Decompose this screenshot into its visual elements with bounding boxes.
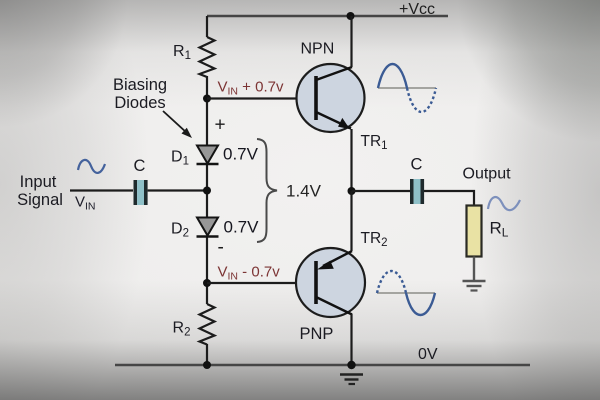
svg-text:D1: D1 bbox=[171, 149, 189, 168]
svg-text:-: - bbox=[218, 237, 224, 258]
wire output left segment bbox=[352, 190, 411, 192]
wire PNP emitter to output node bbox=[350, 191, 352, 251]
arrow from Biasing Diodes to D1 bbox=[163, 111, 192, 138]
output sine squiggle bbox=[488, 197, 520, 210]
svg-text:RL: RL bbox=[490, 219, 509, 240]
diode D2 bbox=[197, 218, 219, 237]
wire PNP collector to 0V rail bbox=[350, 314, 352, 365]
sine wave at TR2 (positive dashed, negative solid) bbox=[377, 271, 435, 315]
wire bottom 0V rail bbox=[115, 364, 530, 366]
node VIN+0.7 junction dot bbox=[203, 95, 211, 103]
wire RL to ground bbox=[473, 257, 475, 281]
wire input left segment bbox=[70, 189, 133, 191]
wire output right segment to RL bbox=[424, 191, 474, 206]
svg-text:VIN + 0.7v: VIN + 0.7v bbox=[218, 79, 284, 98]
svg-text:TR1: TR1 bbox=[361, 133, 388, 152]
transistor TR1 NPN bbox=[297, 64, 365, 132]
wire top +Vcc rail bbox=[207, 15, 448, 18]
svg-text:Diodes: Diodes bbox=[114, 94, 165, 112]
svg-text:Biasing: Biasing bbox=[113, 76, 167, 94]
svg-text:TR2: TR2 bbox=[361, 230, 388, 249]
node dot TR2 on rail bbox=[347, 361, 355, 369]
ground symbol (0V rail) bbox=[340, 375, 363, 385]
wire NPN collector to rail bbox=[350, 16, 352, 67]
svg-text:NPN: NPN bbox=[301, 41, 335, 58]
node dot R2 on rail bbox=[203, 361, 211, 369]
svg-text:R2: R2 bbox=[173, 320, 191, 339]
node output junction dot bbox=[348, 187, 356, 195]
svg-text:Output: Output bbox=[463, 166, 512, 183]
node junction dot on +Vcc rail bbox=[347, 12, 355, 20]
svg-text:+: + bbox=[215, 115, 226, 136]
resistor RL load bbox=[467, 206, 482, 257]
node VIN-0.7 junction dot bbox=[203, 279, 211, 287]
capacitor C (output) bbox=[410, 179, 424, 204]
svg-text:VIN - 0.7v: VIN - 0.7v bbox=[218, 264, 281, 283]
wire PNP base bbox=[207, 282, 316, 284]
svg-text:C: C bbox=[134, 157, 146, 175]
svg-text:0V: 0V bbox=[418, 346, 438, 363]
node input junction dot bbox=[203, 187, 211, 195]
wire NPN base bbox=[207, 97, 316, 99]
diode D1 bbox=[197, 146, 219, 165]
svg-text:Signal: Signal bbox=[17, 191, 63, 209]
capacitor C (input) bbox=[134, 180, 148, 205]
input sine squiggle bbox=[78, 160, 105, 173]
transistor TR2 PNP bbox=[296, 248, 365, 317]
svg-text:D2: D2 bbox=[171, 221, 189, 240]
sine wave at TR1 (positive solid, negative dashed) bbox=[378, 64, 436, 112]
svg-text:0.7V: 0.7V bbox=[224, 218, 260, 237]
svg-text:Input: Input bbox=[20, 173, 57, 191]
resistor R2 bbox=[200, 304, 215, 345]
wire input right segment bbox=[148, 189, 207, 191]
brace 1.4V bbox=[257, 139, 277, 242]
wire NPN emitter to output node bbox=[350, 129, 352, 191]
svg-text:+Vcc: +Vcc bbox=[399, 1, 435, 18]
svg-text:0.7V: 0.7V bbox=[223, 145, 259, 164]
svg-text:R1: R1 bbox=[173, 43, 191, 62]
resistor R1 bbox=[200, 37, 215, 77]
ground symbol (RL) bbox=[463, 281, 486, 291]
svg-text:VIN: VIN bbox=[75, 194, 96, 213]
svg-text:1.4V: 1.4V bbox=[286, 182, 322, 201]
wire left vertical bus x=207 bbox=[206, 16, 208, 365]
svg-text:PNP: PNP bbox=[300, 325, 334, 343]
svg-text:C: C bbox=[411, 156, 423, 174]
